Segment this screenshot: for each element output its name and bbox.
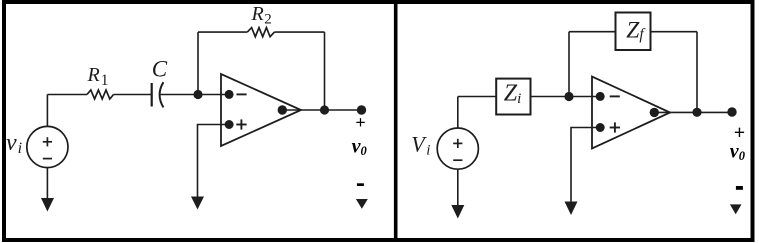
- op-amp U2 inverting input dot: [596, 92, 605, 101]
- wire output: [282, 109, 361, 111]
- label R2: [251, 3, 272, 28]
- op-amp U1 inverting input dot: [225, 90, 234, 99]
- wire feedback left vertical right circuit: [568, 32, 570, 97]
- wire Vi to Zi: [458, 96, 496, 98]
- op-amp U1 output dot: [278, 105, 287, 114]
- output terminal dot right circuit: [727, 107, 736, 116]
- source Vi minus sign: [453, 159, 462, 161]
- label v0 right circuit: [730, 140, 746, 163]
- wire feedback top right right circuit: [651, 31, 698, 33]
- op-amp U2 output dot: [650, 108, 659, 117]
- source Vi circle: [437, 128, 478, 169]
- source vi plus sign: [43, 137, 52, 146]
- label v0: [352, 135, 368, 158]
- wire feedback top left right circuit: [569, 31, 616, 33]
- output junction dot right circuit: [692, 108, 701, 117]
- wire R1 to C: [114, 94, 152, 96]
- wire non-inverting input right circuit: [571, 128, 600, 203]
- output ground marker triangle right circuit: [730, 204, 742, 214]
- wire vi-top vertical: [46, 95, 48, 127]
- impedance Zf box: [616, 13, 651, 51]
- node B junction dot (input node): [564, 92, 573, 101]
- ground arrow under source vi: [41, 198, 54, 212]
- op-amp U2 non-inverting input dot: [596, 123, 605, 132]
- op-amp U1 minus sign: [237, 93, 247, 95]
- wire feedback top right: [274, 31, 324, 33]
- label plus terminal: [355, 113, 365, 133]
- wire Zi to inverting input: [531, 96, 601, 98]
- op-amp U1 plus sign: [236, 119, 246, 129]
- label C: [152, 56, 168, 81]
- label Vi: [411, 132, 430, 159]
- resistor R2: [247, 28, 274, 37]
- wire Vi-bottom vertical: [457, 169, 459, 205]
- wire feedback right vertical right circuit: [696, 32, 698, 113]
- output ground marker triangle: [356, 199, 368, 209]
- label vi: [6, 130, 22, 157]
- label minus terminal: [357, 183, 364, 186]
- capacitor C right curved plate: [160, 82, 164, 107]
- wire vi-bottom vertical: [46, 168, 48, 199]
- wire feedback left vertical: [197, 32, 199, 94]
- source Vi plus sign: [453, 139, 462, 148]
- source vi circle: [27, 126, 68, 167]
- ground arrow under op-amp: [191, 197, 204, 210]
- wire feedback right vertical: [324, 32, 326, 110]
- label minus terminal right circuit: [736, 186, 743, 190]
- resistor R1: [87, 90, 114, 99]
- impedance Zi box: [496, 79, 530, 115]
- op-amp U1 non-inverting input dot: [225, 120, 234, 129]
- op-amp U2 minus sign: [610, 95, 620, 97]
- svg-text:C: C: [152, 56, 168, 81]
- wire Vi-top vertical: [457, 97, 459, 129]
- wire non-inverting input: [198, 125, 230, 198]
- source vi minus sign: [43, 158, 52, 160]
- svg-text:+: +: [355, 113, 365, 133]
- op-amp U2 triangle: [592, 77, 670, 149]
- wire output right circuit: [654, 111, 732, 113]
- ground arrow under op-amp right circuit: [565, 202, 578, 216]
- ground arrow under source Vi: [451, 205, 464, 219]
- wire C to inverting input: [161, 94, 229, 96]
- panel divider: [394, 0, 398, 242]
- op-amp U1 triangle: [221, 74, 301, 146]
- label Zf: [626, 17, 646, 43]
- label R1: [87, 64, 109, 89]
- label plus terminal right circuit: [734, 122, 745, 144]
- output terminal dot: [357, 105, 366, 114]
- wire vi to R1: [47, 94, 87, 96]
- label Zi: [504, 81, 522, 108]
- output junction dot: [320, 105, 329, 114]
- node A junction dot (input node): [193, 90, 202, 99]
- wire feedback top left: [198, 31, 247, 33]
- op-amp U2 plus sign: [610, 122, 620, 132]
- capacitor C left plate: [151, 83, 153, 107]
